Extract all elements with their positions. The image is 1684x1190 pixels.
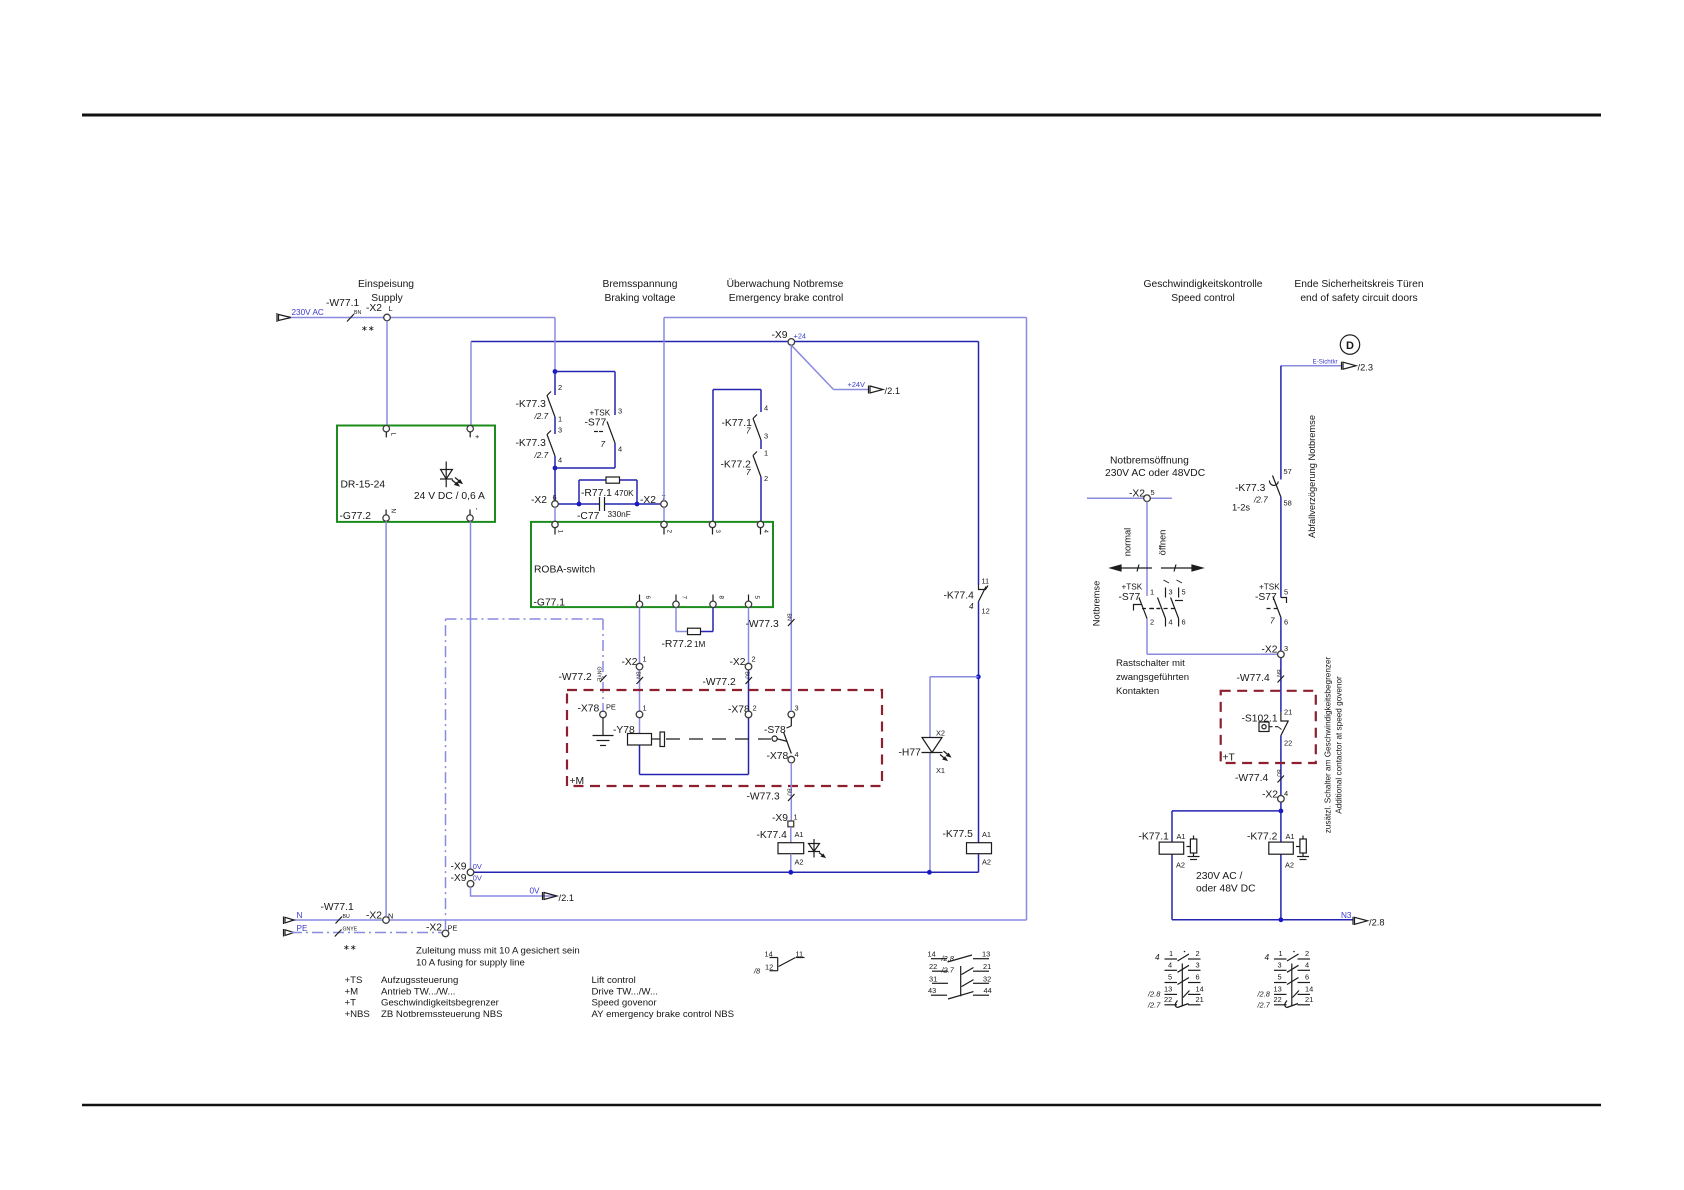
svg-text:PE: PE [297, 924, 308, 933]
svg-text:-X78: -X78 [767, 751, 789, 762]
svg-text:PE: PE [606, 703, 616, 712]
G77.1 pin 3 [709, 521, 715, 527]
wire K77.4 contact branch vertical [978, 342, 980, 873]
resistor -R77.1 470K [606, 477, 620, 483]
svg-text:4: 4 [1168, 960, 1172, 969]
svg-text:10 A fusing for supply line: 10 A fusing for supply line [416, 958, 525, 969]
wire C77 node line [558, 480, 660, 504]
G77.1 pin 7 bottom [673, 601, 679, 607]
svg-text:/2.8: /2.8 [1369, 918, 1385, 928]
svg-text:4: 4 [795, 750, 799, 759]
contact -K77.1 NO [753, 415, 761, 441]
svg-text:6: 6 [1284, 618, 1288, 627]
svg-text:-W77.4: -W77.4 [1235, 773, 1268, 784]
svg-text:-G77.1: -G77.1 [534, 598, 566, 609]
svg-text:14: 14 [928, 950, 936, 959]
svg-text:∗∗: ∗∗ [343, 943, 357, 952]
svg-text:Drive TW.../W...: Drive TW.../W... [592, 986, 658, 997]
junction dot chain bottom [553, 466, 558, 471]
svg-text:+T: +T [1223, 753, 1236, 764]
svg-text:-W77.3: -W77.3 [747, 792, 780, 803]
svg-text:12: 12 [765, 963, 773, 972]
capacitor -C77 330nF [600, 497, 605, 511]
svg-text:5: 5 [1284, 588, 1288, 597]
ground symbol [593, 718, 614, 746]
svg-text:+NBS: +NBS [345, 1009, 370, 1020]
svg-text:-X9: -X9 [772, 813, 788, 824]
svg-text:/2.7: /2.7 [1253, 496, 1268, 505]
svg-text:1: 1 [764, 449, 768, 458]
wire PE GNYE drop to -X78:PE [602, 619, 604, 711]
svg-text:2: 2 [1305, 949, 1309, 958]
G77.1 pin 2 [661, 521, 667, 527]
svg-text:-X2: -X2 [426, 923, 442, 934]
contact mirror K77.2 [1274, 954, 1310, 1008]
svg-text:-W77.2: -W77.2 [703, 677, 736, 688]
svg-text:/8: /8 [753, 967, 761, 976]
svg-text:13: 13 [982, 950, 990, 959]
svg-text:-X2: -X2 [640, 495, 656, 506]
svg-text:BN: BN [1275, 670, 1281, 677]
svg-text:21: 21 [983, 962, 991, 971]
svg-text:330nF: 330nF [608, 510, 631, 519]
svg-text:1: 1 [558, 415, 562, 424]
svg-text:+M: +M [570, 776, 585, 787]
wire G77.2 N pin down to N line [385, 521, 387, 916]
svg-text:0V: 0V [473, 862, 482, 871]
svg-text:Aufzugssteuerung: Aufzugssteuerung [381, 975, 458, 986]
svg-text:Notbremsöffnung: Notbremsöffnung [1110, 456, 1189, 467]
svg-text:BU: BU [786, 789, 792, 796]
svg-text:/2.7: /2.7 [1147, 1001, 1161, 1010]
svg-text:5: 5 [1168, 973, 1172, 982]
wire PE dash-dot vertical up [445, 619, 447, 930]
svg-text:/2.8: /2.8 [941, 954, 955, 963]
svg-text:5: 5 [1278, 973, 1282, 982]
svg-text:A2: A2 [1285, 861, 1294, 870]
svg-text:/2.8: /2.8 [1257, 990, 1271, 999]
svg-text:BU: BU [343, 914, 350, 920]
contact -K77.2 NO [753, 452, 761, 478]
svg-text:-X9: -X9 [451, 862, 467, 873]
G77.1 pin 4 [757, 521, 763, 527]
svg-text:5: 5 [1182, 588, 1186, 597]
contact -K77.3 off-delay 57/58 [1269, 476, 1280, 498]
switch -S77 pole 5-6 stub [1171, 580, 1183, 627]
svg-text:A1: A1 [982, 830, 991, 839]
wire K77.1 branch [1172, 811, 1353, 920]
source arrow 230V AC [277, 313, 291, 322]
svg-text:2: 2 [1150, 618, 1154, 627]
top rule [82, 114, 1601, 117]
svg-text:Geschwindigkeitskontrolle: Geschwindigkeitskontrolle [1143, 279, 1262, 290]
svg-text:3: 3 [618, 407, 622, 416]
source arrow N [284, 917, 295, 925]
target arrow +24V /2.1 [869, 386, 884, 394]
svg-text:ROBA-switch: ROBA-switch [534, 565, 595, 576]
svg-text:3: 3 [1169, 588, 1173, 597]
svg-text:5: 5 [1151, 488, 1155, 497]
svg-text:11: 11 [982, 577, 990, 586]
junction dot chain top [553, 369, 558, 374]
svg-text:zwangsgeführten: zwangsgeführten [1116, 672, 1189, 683]
svg-text:32: 32 [983, 974, 991, 983]
wire PE dash-dot horizontal [291, 932, 446, 934]
direction arrow right [1161, 565, 1203, 572]
svg-text:1: 1 [643, 655, 647, 664]
svg-text:Speed govenor: Speed govenor [592, 998, 658, 1009]
junction dot coil rail [1279, 917, 1284, 922]
svg-text:AY emergency brake control NBS: AY emergency brake control NBS [592, 1009, 735, 1020]
G77.1 pin 6 bottom [636, 601, 642, 607]
svg-text:A1: A1 [795, 830, 804, 839]
svg-text:BN: BN [354, 310, 361, 316]
svg-text:2: 2 [558, 383, 562, 392]
svg-text:Emergency brake control: Emergency brake control [729, 293, 843, 304]
svg-text:-X9: -X9 [772, 330, 788, 341]
svg-text:-S78: -S78 [764, 725, 786, 736]
svg-text:∗∗: ∗∗ [361, 324, 375, 333]
svg-text:-W77.1: -W77.1 [321, 902, 354, 913]
svg-text:-X2: -X2 [1262, 790, 1278, 801]
resistor -R77.2 1M [688, 628, 701, 634]
svg-text:6: 6 [1182, 618, 1186, 627]
svg-text:-C77: -C77 [577, 511, 600, 522]
contact -K77.3 upper NO [547, 392, 555, 418]
wire K77.1 K77.2 monitor loop [713, 390, 761, 522]
svg-text:/2.7: /2.7 [1257, 1001, 1271, 1010]
svg-text:-W77.4: -W77.4 [1237, 673, 1270, 684]
source arrow PE [284, 929, 295, 937]
svg-text:7: 7 [681, 596, 688, 600]
svg-text:GNYE: GNYE [343, 927, 358, 933]
wire R77.2 loop pins 7-8 [676, 608, 688, 632]
svg-text:X2: X2 [936, 729, 945, 738]
contact mirror K77.1 [1165, 954, 1201, 1008]
svg-text:L: L [389, 304, 393, 313]
mechanical dashed link Y78 to S78 [666, 738, 771, 740]
svg-text:+24V: +24V [848, 380, 866, 389]
suppressor at K77.1 [1187, 836, 1200, 860]
bottom rule [82, 1104, 1601, 1107]
svg-text:X1: X1 [936, 766, 945, 775]
svg-text:-W77.2: -W77.2 [559, 672, 592, 683]
svg-text:6: 6 [644, 596, 651, 600]
svg-text:3: 3 [1284, 644, 1288, 653]
svg-text:Additional contactor at speed: Additional contactor at speed govenor [1335, 676, 1344, 814]
svg-text:230V AC /: 230V AC / [1196, 871, 1243, 882]
svg-text:13: 13 [1274, 984, 1282, 993]
svg-text:/2.1: /2.1 [559, 893, 575, 903]
svg-text:24 V DC / 0,6 A: 24 V DC / 0,6 A [414, 491, 485, 502]
svg-text:/2.8: /2.8 [1147, 990, 1161, 999]
suppressor at K77.2 [1296, 836, 1309, 860]
svg-text:57: 57 [1284, 467, 1292, 476]
wire K77.3 chain segments [555, 372, 615, 501]
svg-text:-R77.1: -R77.1 [581, 488, 612, 499]
svg-text:/2.3: /2.3 [1358, 363, 1374, 373]
svg-text:4: 4 [1265, 953, 1270, 962]
svg-text:oder 48V DC: oder 48V DC [1196, 884, 1256, 895]
G77.2 pin plus top-right [467, 426, 473, 432]
svg-text:+TSK: +TSK [1122, 583, 1143, 592]
svg-text:A2: A2 [795, 858, 804, 867]
svg-text:-K77.4: -K77.4 [944, 591, 975, 602]
svg-text:-Y78: -Y78 [613, 725, 635, 736]
ROBA-switch G77.1 box [531, 522, 773, 607]
svg-text:31: 31 [929, 974, 937, 983]
contact mirror K77.4 [770, 958, 805, 971]
svg-text:0V: 0V [473, 874, 482, 883]
svg-text:A1: A1 [1177, 832, 1186, 841]
svg-text:7: 7 [746, 427, 751, 436]
svg-text:1: 1 [643, 704, 647, 713]
G77.2 pin L top-left [383, 426, 389, 432]
svg-text:Speed control: Speed control [1171, 293, 1235, 304]
svg-text:-X2: -X2 [531, 495, 547, 506]
svg-text:-W77.1: -W77.1 [326, 298, 359, 309]
G77.1 pin 1 [552, 521, 558, 527]
svg-text:Braking voltage: Braking voltage [605, 293, 676, 304]
G77.1 pin 8 bottom [710, 601, 716, 607]
svg-text:14: 14 [1305, 984, 1313, 993]
switch -S77 pole 3-4 stub [1158, 580, 1170, 627]
svg-text:7: 7 [1270, 617, 1275, 626]
svg-text:+24: +24 [794, 332, 807, 341]
svg-text:4: 4 [1169, 618, 1173, 627]
svg-text:-W77.3: -W77.3 [746, 619, 779, 630]
cable label -W77.1 GNYE with slash [335, 930, 342, 937]
wire +24V branch diagonal to /2.1 [791, 345, 833, 389]
svg-text:22: 22 [1164, 995, 1172, 1004]
G77.2 pin minus bottom-right [467, 515, 473, 521]
wire X9+24 down through M box [790, 345, 792, 821]
wire N horizontal [291, 919, 1027, 921]
junction dot H77 branch [976, 674, 981, 679]
svg-text:Bremsspannung: Bremsspannung [603, 279, 678, 290]
box +M dashed [567, 690, 882, 786]
svg-text:8: 8 [718, 596, 725, 600]
svg-text:44: 44 [984, 986, 992, 995]
svg-text:Kontakten: Kontakten [1116, 686, 1159, 697]
cable -W77.2 BN slash [637, 677, 644, 684]
svg-text:14: 14 [765, 950, 773, 959]
wire A' neutral top horizontal [664, 317, 1027, 319]
svg-text:-K77.1: -K77.1 [1139, 832, 1170, 843]
svg-text:21: 21 [1305, 995, 1313, 1004]
svg-text:470K: 470K [615, 489, 635, 498]
svg-text:/2.7: /2.7 [534, 451, 549, 460]
svg-text:21: 21 [1284, 708, 1292, 717]
K77.4 LED indicator [808, 839, 825, 858]
svg-text:/2.7: /2.7 [941, 966, 955, 975]
svg-text:DR-15-24: DR-15-24 [341, 480, 386, 491]
svg-text:21: 21 [1196, 995, 1204, 1004]
svg-text:230V AC: 230V AC [292, 308, 324, 317]
svg-text:Abfallverzögerung Notbremse: Abfallverzögerung Notbremse [1307, 415, 1317, 538]
svg-text:11: 11 [796, 950, 804, 959]
svg-text:Überwachung Notbremse: Überwachung Notbremse [727, 278, 844, 290]
wire G77.2 minus pin down to X9:0V [470, 521, 472, 869]
svg-text:+T: +T [345, 998, 357, 1009]
svg-text:Notbremse: Notbremse [1092, 581, 1102, 626]
svg-text:1: 1 [794, 813, 798, 822]
wire L 230VAC horizontal [291, 317, 555, 319]
G77.2 pin N bottom-left [383, 515, 389, 521]
svg-text:22: 22 [1284, 739, 1292, 748]
svg-text:Ende Sicherheitskreis Türen: Ende Sicherheitskreis Türen [1294, 279, 1423, 290]
svg-text:230V AC oder 48VDC: 230V AC oder 48VDC [1105, 468, 1206, 479]
svg-text:öffnen: öffnen [1158, 530, 1168, 556]
wire X2:5 down to S77 pole1 [1147, 502, 1278, 655]
svg-text:3: 3 [714, 530, 721, 534]
svg-text:4: 4 [969, 602, 974, 611]
svg-text:N3: N3 [1341, 911, 1352, 920]
box +T dashed [1221, 691, 1316, 763]
svg-text:-K77.3: -K77.3 [1235, 483, 1266, 494]
contact -S77 bypass with TSK [594, 422, 615, 444]
interruption marker D circle [1340, 335, 1359, 354]
svg-text:-X2: -X2 [1262, 645, 1278, 656]
svg-text:Geschwindigkeitsbegrenzer: Geschwindigkeitsbegrenzer [381, 998, 500, 1009]
svg-text:-H77: -H77 [899, 748, 922, 759]
power supply G77.2 DR-15-24 box [337, 426, 495, 522]
svg-text:/2.1: /2.1 [885, 386, 901, 396]
svg-text:7: 7 [601, 440, 606, 449]
svg-text:PE: PE [448, 924, 458, 933]
svg-text:-X9: -X9 [451, 873, 467, 884]
svg-text:normal: normal [1123, 528, 1133, 556]
svg-text:-K77.5: -K77.5 [943, 829, 974, 840]
svg-text:3: 3 [764, 432, 768, 441]
svg-text:4: 4 [764, 404, 768, 413]
svg-text:GNYE: GNYE [596, 667, 602, 682]
svg-text:1-2s: 1-2s [1232, 503, 1250, 513]
svg-text:6: 6 [1305, 973, 1309, 982]
junction dot K77.4 A2 [788, 870, 793, 875]
svg-text:zusätzl. Schalter am Geschwind: zusätzl. Schalter am Geschwindigkeitsbeg… [1324, 656, 1333, 833]
svg-text:3: 3 [1196, 960, 1200, 969]
svg-text:N: N [390, 509, 397, 513]
svg-text:+TS: +TS [345, 975, 363, 986]
svg-text:22: 22 [929, 962, 937, 971]
wire X2:6 X2:7 stubs to ROBA pins [554, 507, 556, 521]
wire H77 branch [930, 677, 978, 873]
svg-text:-R77.2: -R77.2 [662, 639, 693, 650]
svg-text:0V: 0V [530, 887, 541, 896]
svg-text:-K77.3: -K77.3 [516, 438, 547, 449]
svg-text:58: 58 [1284, 499, 1292, 508]
junction dot H77 A2 [927, 870, 932, 875]
svg-text:+TSK: +TSK [1259, 583, 1280, 592]
wire right outer vertical [1026, 318, 1028, 921]
svg-text:12: 12 [982, 607, 990, 616]
svg-text:Rastschalter mit: Rastschalter mit [1116, 658, 1185, 669]
junction dots C77 [577, 502, 582, 507]
svg-text:Lift control: Lift control [592, 975, 636, 986]
svg-text:43: 43 [928, 986, 936, 995]
target arrow N3 /2.8 [1353, 917, 1368, 925]
svg-text:3: 3 [795, 704, 799, 713]
svg-text:-K77.3: -K77.3 [516, 399, 547, 410]
wire X2:7 vertical to neutral top [663, 318, 665, 501]
contact mirror K77.5 [931, 955, 989, 999]
G77.1 pin 5 bottom [745, 601, 751, 607]
svg-text:end of safety circuit doors: end of safety circuit doors [1300, 293, 1417, 304]
svg-text:4: 4 [558, 456, 562, 465]
svg-text:2: 2 [666, 530, 673, 534]
wire 0V rail [471, 871, 979, 873]
svg-text:Zuleitung muss mit 10 A gesich: Zuleitung muss mit 10 A gesichert sein [416, 946, 580, 957]
svg-text:2: 2 [1196, 949, 1200, 958]
svg-text:E-Sichtkr: E-Sichtkr [1313, 359, 1338, 366]
svg-text:4: 4 [1305, 960, 1309, 969]
svg-text:BU: BU [1275, 770, 1281, 777]
svg-text:-K77.2: -K77.2 [1247, 832, 1278, 843]
svg-text:BU: BU [744, 672, 750, 679]
svg-text:14: 14 [1196, 984, 1204, 993]
svg-text:Antrieb TW.../W...: Antrieb TW.../W... [381, 986, 455, 997]
svg-text:BN: BN [635, 672, 641, 679]
wire line B braking voltage bus [471, 341, 979, 343]
svg-text:N: N [297, 911, 303, 920]
wire pin5 down (BU) [748, 608, 750, 664]
svg-text:+TSK: +TSK [590, 409, 611, 418]
mechanical link dashes between poles [1142, 608, 1176, 610]
svg-text:1: 1 [1150, 588, 1154, 597]
svg-text:4: 4 [618, 445, 622, 454]
svg-text:5: 5 [753, 596, 760, 600]
wire E-Sichtkr horizontal [1281, 365, 1341, 367]
svg-text:3: 3 [1278, 960, 1282, 969]
svg-text:-G77.2: -G77.2 [340, 511, 372, 522]
direction arrow left [1111, 565, 1153, 572]
svg-text:L: L [390, 433, 397, 437]
svg-text:2: 2 [752, 655, 756, 664]
svg-text:A2: A2 [982, 858, 991, 867]
svg-text:6: 6 [1196, 973, 1200, 982]
svg-text:-X78: -X78 [578, 704, 600, 715]
svg-text:4: 4 [762, 530, 769, 534]
wire 0V branch to /2.1 [471, 887, 557, 896]
junction dot K77.1 branch [1279, 809, 1284, 814]
svg-text:22: 22 [1274, 995, 1282, 1004]
wire -X2:L down to G77.2 [386, 321, 388, 426]
svg-text:2: 2 [764, 474, 768, 483]
svg-text:1: 1 [1279, 949, 1283, 958]
svg-text:1: 1 [557, 530, 564, 534]
svg-text:4: 4 [1284, 789, 1288, 798]
svg-text:3: 3 [558, 426, 562, 435]
svg-text:-X2: -X2 [366, 911, 382, 922]
svg-text:2: 2 [753, 704, 757, 713]
svg-text:13: 13 [1164, 984, 1172, 993]
svg-text:A1: A1 [1286, 832, 1295, 841]
svg-text:+: + [475, 432, 479, 441]
svg-text:+M: +M [345, 986, 359, 997]
svg-text:Einspeisung: Einspeisung [358, 279, 414, 290]
wire PE dash-dot horizontal to GNYE drop [446, 618, 604, 620]
svg-text:/2.7: /2.7 [534, 412, 549, 421]
svg-text:4: 4 [1155, 953, 1160, 962]
svg-text:ZB Notbremssteuerung NBS: ZB Notbremssteuerung NBS [381, 1009, 503, 1020]
svg-text:D: D [1346, 340, 1354, 352]
svg-text:BN: BN [786, 614, 792, 621]
target arrow 0V /2.1 [543, 892, 558, 900]
svg-text:-X2: -X2 [730, 657, 746, 668]
svg-text:-X2: -X2 [366, 303, 382, 314]
G77.2 LED indicator [440, 462, 462, 488]
